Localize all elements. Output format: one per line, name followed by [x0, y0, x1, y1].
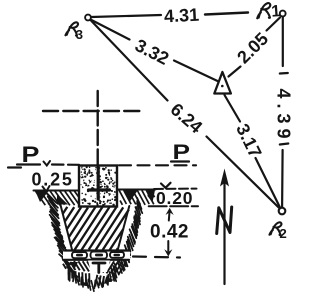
svg-text:4.39: 4.39	[274, 89, 294, 144]
underline P left	[17, 163, 40, 165]
dimension line below 0.20	[149, 205, 198, 207]
plumb mark below bricks	[93, 263, 105, 273]
dimension up arrow 0.42	[166, 208, 174, 215]
dimension check above 0.20	[161, 183, 171, 188]
point R1	[280, 11, 286, 17]
brick course top line	[66, 249, 130, 251]
wire: line R1-R2 upper segment	[282, 17, 284, 66]
wire: line station-R1 segment 1	[229, 67, 241, 77]
tick above 4.39	[280, 72, 288, 75]
svg-text:2.05: 2.05	[233, 29, 272, 68]
pit outer excavation band bottom strokes	[68, 268, 116, 292]
svg-text:0.20: 0.20	[156, 188, 193, 208]
brick 1	[72, 252, 87, 258]
wire: line R3-station segment 1	[91, 20, 130, 40]
wire: line R3-R2 segment 2	[207, 137, 280, 209]
north arrow shaft	[223, 181, 225, 284]
pit inner hatched fill	[63, 207, 129, 251]
P section dashed line right	[119, 164, 196, 166]
north arrow head	[220, 169, 229, 187]
label R1	[256, 2, 281, 22]
brick 2	[91, 252, 108, 259]
wire: line R1-R2 lower segment	[281, 150, 284, 208]
wire: line station-R1 segment 2	[267, 18, 281, 31]
label P right	[173, 140, 191, 164]
pit outer excavation band left strokes	[47, 193, 78, 277]
label R2	[269, 222, 286, 241]
pit bottom dashed line	[133, 257, 180, 258]
wire: baseline R3-R1 right dash	[205, 13, 248, 15]
label N	[217, 207, 232, 234]
pit inner wall right	[117, 206, 129, 252]
pillar centre cross	[89, 168, 110, 200]
svg-text:2: 2	[279, 226, 286, 241]
label P left	[22, 143, 40, 167]
wire: line R3-station segment 2	[174, 61, 218, 82]
tick below 4.39	[280, 144, 289, 145]
monument pillar (stippled concrete)	[79, 166, 117, 207]
crosshair vertical centerline	[96, 91, 98, 165]
ground hatch band left of pillar	[34, 191, 80, 206]
wire: line station-R2 segment 2	[256, 158, 281, 208]
point R3	[85, 15, 91, 21]
wire: line R3-R2 segment 1	[91, 20, 168, 101]
crosshair horizontal centerline	[43, 110, 141, 112]
wire: baseline R3-R1 left segment	[92, 15, 162, 17]
wire: line station-R2 segment 1	[225, 95, 241, 122]
P section dashed line left	[52, 163, 79, 166]
pit outer excavation band right strokes	[111, 198, 143, 281]
label R3	[65, 22, 83, 42]
dimension down arrow 0.42	[167, 241, 169, 251]
white pocket below middle brick	[88, 261, 110, 273]
point R2	[279, 208, 286, 215]
svg-text:3.17: 3.17	[232, 121, 265, 161]
pit inner wall left	[61, 205, 73, 252]
svg-text:3.32: 3.32	[132, 35, 172, 69]
brick course bottom line	[63, 259, 129, 261]
station triangle	[214, 72, 231, 94]
datum arrow v on P-line	[44, 161, 51, 166]
svg-text:3: 3	[76, 27, 83, 42]
datum arrow v below 0.25	[43, 186, 50, 192]
left margin dash	[8, 166, 21, 168]
svg-text:6.24: 6.24	[167, 99, 207, 137]
brick cores	[76, 254, 120, 257]
svg-text:4.31: 4.31	[164, 5, 200, 27]
brick 3	[110, 252, 124, 258]
underline P right	[171, 160, 189, 162]
ground hatch band right of pillar	[117, 190, 156, 205]
svg-text:0.25: 0.25	[32, 170, 74, 190]
svg-text:0.42: 0.42	[150, 222, 189, 243]
brick course background	[63, 252, 130, 260]
bottom bowl hatched fill	[63, 261, 91, 272]
dimension line above 0.20	[154, 188, 197, 190]
